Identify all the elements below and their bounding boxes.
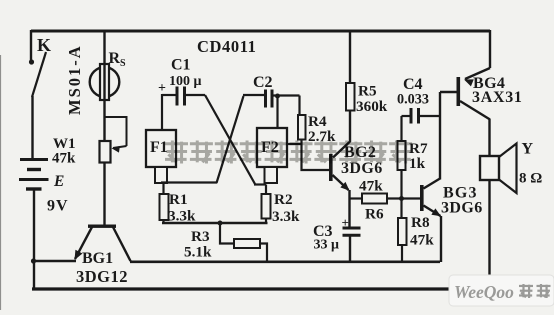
svg-text:WeeQoo: WeeQoo xyxy=(454,282,514,302)
svg-text:47k: 47k xyxy=(410,232,434,249)
svg-text:9V: 9V xyxy=(47,198,69,215)
svg-text:F2: F2 xyxy=(261,139,279,156)
svg-text:8 Ω: 8 Ω xyxy=(519,171,542,187)
svg-text:3DG6: 3DG6 xyxy=(441,200,483,217)
svg-text:3DG12: 3DG12 xyxy=(76,267,128,286)
svg-text:C4: C4 xyxy=(403,76,423,93)
svg-text:3DG6: 3DG6 xyxy=(341,160,383,177)
svg-text:MS01-A: MS01-A xyxy=(65,44,84,115)
svg-text:0.033: 0.033 xyxy=(397,92,429,108)
svg-text:3AX31: 3AX31 xyxy=(472,89,523,106)
svg-text:BG1: BG1 xyxy=(82,250,113,267)
svg-text:S: S xyxy=(120,58,126,69)
svg-text:E: E xyxy=(53,173,64,190)
svg-text:5.1k: 5.1k xyxy=(184,244,212,261)
svg-text:Y: Y xyxy=(522,141,534,158)
svg-text:R6: R6 xyxy=(365,206,384,223)
svg-text:47k: 47k xyxy=(359,178,383,195)
svg-text:1k: 1k xyxy=(409,155,426,172)
svg-text:R1: R1 xyxy=(169,191,188,208)
svg-text:K: K xyxy=(37,35,51,55)
svg-text:R8: R8 xyxy=(411,214,430,231)
svg-text:3.3k: 3.3k xyxy=(272,208,300,225)
svg-text:3.3k: 3.3k xyxy=(168,208,196,225)
svg-text:+: + xyxy=(342,215,349,230)
svg-text:360k: 360k xyxy=(356,98,388,115)
svg-text:R2: R2 xyxy=(274,191,293,208)
svg-text:100 μ: 100 μ xyxy=(169,74,202,89)
svg-text:C2: C2 xyxy=(253,74,273,91)
svg-text:33 μ: 33 μ xyxy=(314,238,340,253)
svg-text:F1: F1 xyxy=(150,139,168,156)
svg-text:R3: R3 xyxy=(191,228,210,245)
svg-text:+: + xyxy=(158,81,166,96)
svg-text:R: R xyxy=(109,50,121,67)
svg-text:47k: 47k xyxy=(52,151,76,167)
svg-text:R5: R5 xyxy=(358,83,377,100)
svg-text:CD4011: CD4011 xyxy=(197,37,257,56)
svg-text:C1: C1 xyxy=(171,57,191,74)
